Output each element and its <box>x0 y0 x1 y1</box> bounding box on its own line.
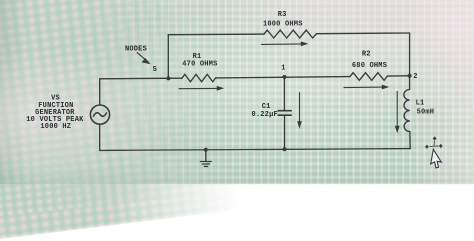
inductor L1 <box>404 90 410 132</box>
sine source VS circle <box>90 105 109 124</box>
mouse cursor with move arrows <box>425 136 443 168</box>
svg-text:0.22µF: 0.22µF <box>251 111 277 119</box>
current arrow R2 <box>344 86 384 89</box>
node S junction dot <box>166 76 170 80</box>
junction dot ground <box>204 148 208 152</box>
current arrow C1 <box>299 92 301 123</box>
resistor R2 <box>350 73 387 81</box>
resistor R1 <box>182 74 216 81</box>
wire: vertical from node S up to top branch <box>167 35 169 79</box>
wire: main horizontal, R2 to node 2 <box>387 75 409 77</box>
current arrow R3 <box>261 43 303 46</box>
svg-text:680 OHMS: 680 OHMS <box>352 62 387 70</box>
wire: source top vertical <box>99 79 101 105</box>
svg-text:1000 HZ: 1000 HZ <box>40 123 71 131</box>
wire: main horizontal, R1 to R2 <box>216 77 350 78</box>
wire: top branch left segment <box>168 33 264 36</box>
wire: bottom horizontal <box>100 149 411 151</box>
svg-text:C1: C1 <box>262 103 271 111</box>
wire: L1 coil bottom to bottom wire <box>409 132 411 149</box>
node 1 junction dot <box>282 75 286 79</box>
svg-text:50mH: 50mH <box>417 109 435 117</box>
wire: C1 bottom vertical to bottom wire <box>284 115 286 149</box>
sine wave glyph <box>94 113 107 117</box>
svg-text:R2: R2 <box>362 51 371 59</box>
svg-text:2: 2 <box>413 73 417 81</box>
svg-text:L1: L1 <box>416 99 425 107</box>
svg-text:R3: R3 <box>278 11 287 19</box>
svg-text:NODES: NODES <box>125 45 147 53</box>
wire: C1 top vertical from node 1 <box>283 77 285 110</box>
svg-text:S: S <box>153 66 157 74</box>
wire: top branch right segment <box>317 32 410 35</box>
svg-text:1: 1 <box>281 64 285 72</box>
capacitor C1 plate bottom <box>278 114 291 116</box>
svg-text:470 OHMS: 470 OHMS <box>182 60 217 68</box>
wire: main horizontal, source to R1 <box>100 77 182 80</box>
wire: right vertical from top branch down to node 2 <box>409 33 411 76</box>
current arrow R1 <box>179 87 219 89</box>
svg-text:1000 OHMS: 1000 OHMS <box>263 21 303 29</box>
wire: source bottom vertical <box>99 124 101 150</box>
wire: node 2 down to L1 coil <box>409 76 411 90</box>
current arrow L1 <box>396 91 398 127</box>
node 2 junction dot <box>408 74 412 78</box>
resistor R3 <box>264 30 317 38</box>
annotation arrow NODES <box>137 52 147 60</box>
ground <box>200 150 211 167</box>
junction dot C1 bottom <box>283 147 287 151</box>
capacitor C1 plate top <box>278 110 291 112</box>
